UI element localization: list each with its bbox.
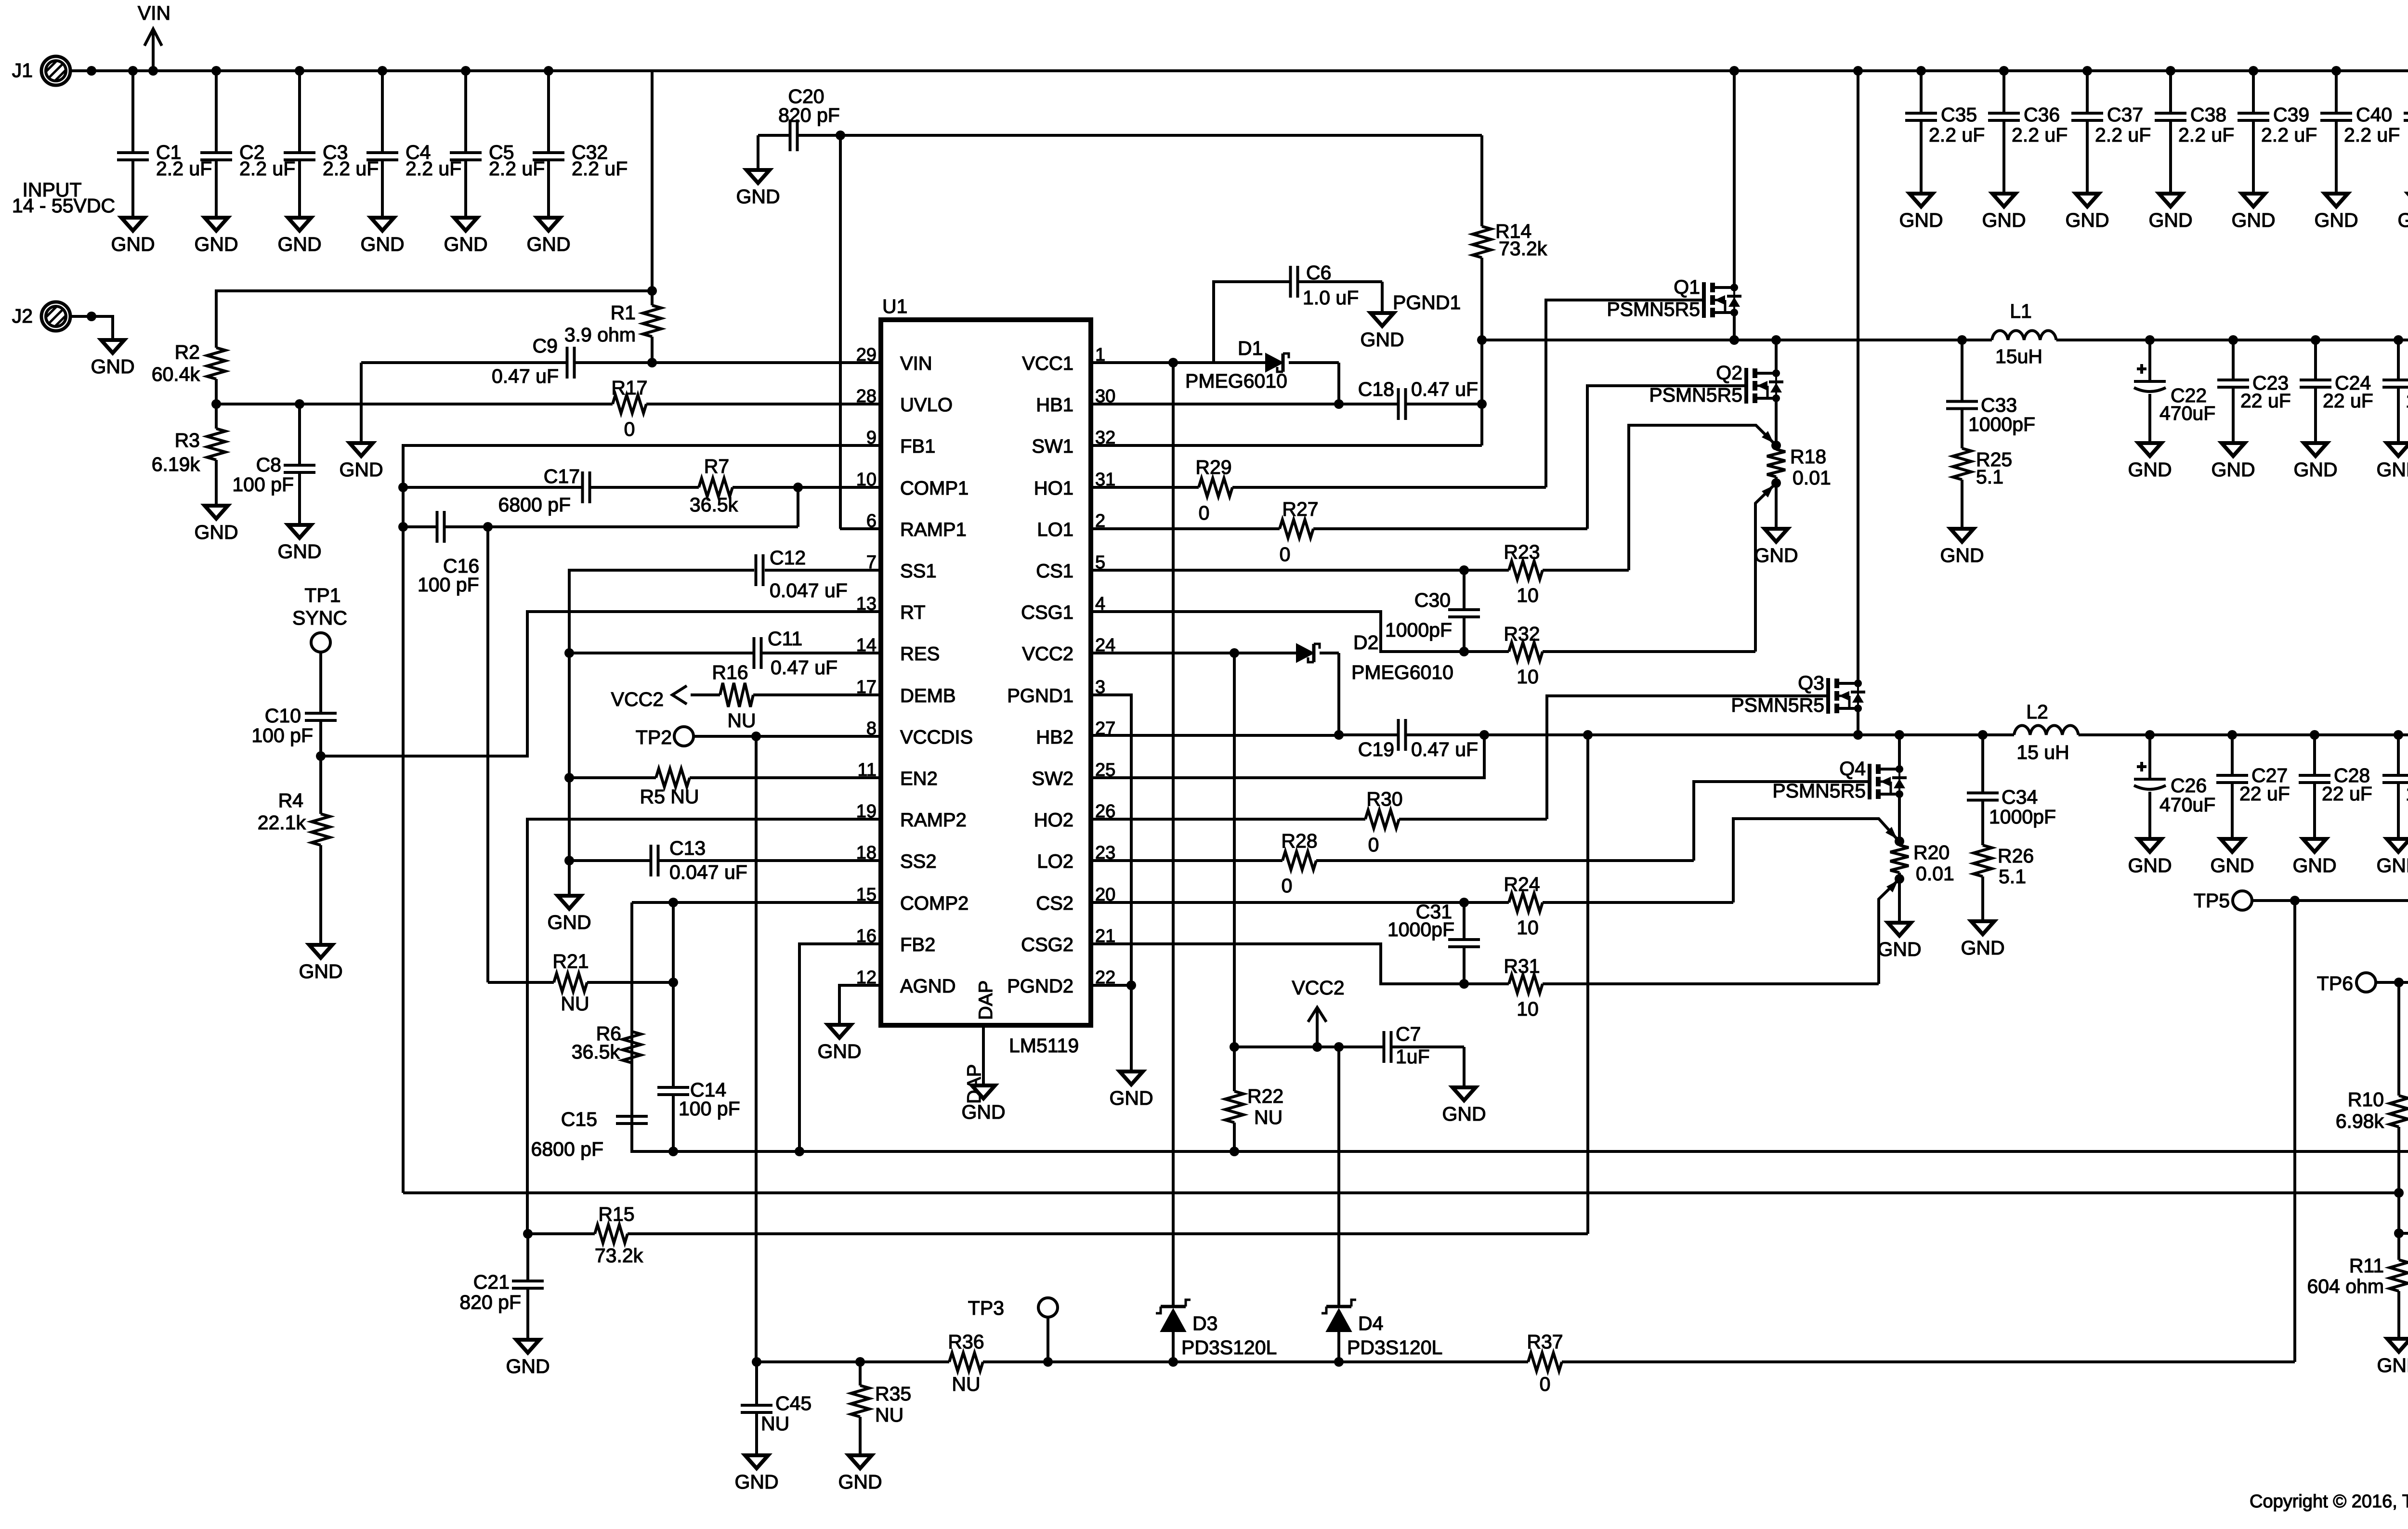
svg-text:1.0 uF: 1.0 uF [2406, 783, 2408, 805]
svg-text:D2: D2 [1353, 631, 1378, 653]
wire AGND row [839, 985, 881, 1025]
svg-text:GND: GND [1754, 544, 1798, 566]
svg-text:R16: R16 [712, 661, 748, 683]
capacitor C26 polarized [2134, 735, 2215, 839]
svg-text:3.9 ohm: 3.9 ohm [564, 324, 636, 346]
junction J2 stub [87, 312, 96, 321]
svg-text:Q3: Q3 [1798, 672, 1824, 694]
resistor R27 [1280, 498, 1319, 565]
wire D4 column [1337, 1047, 1340, 1307]
capacitor C31 [1387, 901, 1480, 984]
svg-text:0.047 uF: 0.047 uF [669, 861, 747, 883]
capacitor C21 [459, 1234, 544, 1340]
junction rail TP3 [1043, 1357, 1053, 1367]
svg-text:GND: GND [817, 1040, 861, 1062]
svg-text:470uF: 470uF [2159, 794, 2215, 816]
svg-text:RES: RES [900, 643, 940, 665]
junction C16 left [398, 522, 408, 532]
ground C7 [1442, 1087, 1486, 1125]
junction D4 top [1334, 1042, 1344, 1052]
wire CS2 row [1091, 901, 1733, 904]
svg-text:AGND: AGND [900, 976, 956, 997]
svg-text:C40: C40 [2356, 104, 2392, 126]
wire Q3 drain feed [1857, 71, 1859, 683]
svg-text:PGND1: PGND1 [1007, 685, 1073, 706]
svg-text:R4: R4 [278, 789, 303, 811]
wire HB2 row [1091, 735, 1399, 735]
svg-text:820 pF: 820 pF [778, 104, 840, 126]
transistor Q3 PSMN5R5 [1731, 672, 1865, 735]
svg-text:2.2 uF: 2.2 uF [572, 157, 628, 180]
capacitor C45 [741, 1362, 811, 1455]
svg-text:SYNC: SYNC [292, 607, 347, 629]
svg-text:TP3: TP3 [968, 1297, 1004, 1319]
junction FB2 R22 [1230, 1147, 1239, 1156]
svg-text:GND: GND [1360, 328, 1404, 351]
ground R3 [194, 506, 238, 543]
svg-text:0.47 uF: 0.47 uF [1411, 378, 1478, 400]
svg-text:D4: D4 [1358, 1312, 1383, 1334]
wire C9 gnd branch [360, 363, 363, 443]
resistor R6 [572, 1022, 641, 1063]
junction UVLO node [211, 399, 221, 409]
svg-text:R37: R37 [1527, 1331, 1563, 1353]
wire rail riser [2293, 901, 2296, 1362]
svg-text:GND: GND [1442, 1103, 1486, 1125]
svg-text:L1: L1 [2010, 300, 2032, 322]
svg-text:R2: R2 [175, 341, 200, 363]
svg-text:NU: NU [1254, 1106, 1283, 1128]
svg-text:29: 29 [856, 345, 877, 365]
svg-text:GND: GND [194, 233, 238, 255]
ground R11 [2377, 1339, 2408, 1376]
wire bottom rail [757, 1360, 2295, 1363]
svg-text:C21: C21 [473, 1271, 510, 1293]
svg-text:0.47 uF: 0.47 uF [492, 365, 559, 387]
wire VIN bus [56, 69, 2408, 72]
ground C37 [2065, 194, 2109, 231]
svg-text:R18: R18 [1790, 445, 1826, 468]
svg-text:R35: R35 [875, 1383, 911, 1405]
svg-text:CSG2: CSG2 [1021, 934, 1073, 955]
svg-text:PSMN5R5: PSMN5R5 [1772, 780, 1866, 802]
svg-text:13: 13 [856, 594, 877, 614]
inductor L1 15uH [1992, 300, 2056, 367]
junction bus C37 [2082, 66, 2092, 76]
node VCC2 flag up [1292, 977, 1344, 1047]
svg-text:18: 18 [856, 843, 877, 863]
node VIN flag [138, 2, 170, 71]
wire RAMP1 vertical [839, 135, 842, 529]
svg-text:TP5: TP5 [2194, 889, 2230, 912]
svg-text:GND: GND [91, 355, 134, 378]
svg-text:COMP1: COMP1 [900, 478, 968, 499]
svg-text:GND: GND [1961, 937, 2004, 959]
svg-text:9: 9 [866, 428, 877, 448]
svg-text:0: 0 [1368, 834, 1379, 856]
svg-text:1000pF: 1000pF [1968, 413, 2035, 435]
svg-text:100 pF: 100 pF [679, 1098, 740, 1120]
svg-text:GND: GND [2210, 854, 2254, 876]
svg-text:19: 19 [856, 801, 877, 822]
svg-text:R5 NU: R5 NU [640, 785, 699, 808]
svg-text:C36: C36 [2024, 104, 2060, 126]
svg-text:22 uF: 22 uF [2322, 783, 2372, 805]
junction R15 node [1583, 730, 1593, 740]
wire Q3 gate route [1547, 696, 1828, 819]
diode D2 PMEG6010 [1296, 631, 1453, 683]
resistor R20 [1890, 841, 1954, 885]
junction J1 stub [87, 66, 96, 76]
wire TP3 stem [1047, 1317, 1049, 1362]
wire SW2 rail [1484, 733, 2014, 736]
svg-text:C30: C30 [1414, 589, 1451, 611]
wire RAMP2 row [527, 819, 881, 1234]
svg-text:C18: C18 [1358, 378, 1394, 400]
svg-text:VIN: VIN [138, 2, 170, 24]
junction VIN row R1 [647, 358, 657, 367]
inductor L2 15 uH [2014, 701, 2079, 763]
capacitor C9 [492, 335, 575, 387]
svg-text:GND: GND [506, 1355, 550, 1377]
wire VCCDIS drop [755, 736, 758, 1362]
svg-text:17: 17 [856, 677, 877, 697]
svg-text:C37: C37 [2107, 104, 2143, 126]
node PGND1 flag [1393, 291, 1461, 314]
svg-text:GND: GND [1940, 544, 1984, 566]
ground C2 [194, 218, 238, 255]
svg-text:100 pF: 100 pF [251, 724, 313, 746]
wire R1 column [651, 71, 654, 291]
junction bus C5 [461, 66, 471, 76]
junction C30 top [1459, 565, 1469, 575]
svg-text:6800 pF: 6800 pF [531, 1138, 603, 1160]
wire FB2 line [632, 902, 2408, 1151]
svg-text:C35: C35 [1941, 104, 1977, 126]
label copyright [2250, 1491, 2408, 1512]
wire VIN row [361, 361, 881, 364]
svg-text:470uF: 470uF [2159, 402, 2215, 424]
svg-text:C19: C19 [1358, 738, 1394, 760]
svg-text:GND: GND [194, 521, 238, 543]
ground C20 [736, 170, 780, 208]
wire SW node [1482, 339, 1992, 341]
wire SS2 row [569, 859, 881, 862]
resistor R37 [1527, 1331, 1563, 1395]
svg-text:60.4k: 60.4k [152, 363, 200, 385]
svg-text:0.01: 0.01 [1916, 863, 1954, 885]
capacitor C39 [2238, 71, 2317, 194]
capacitor C11 [754, 627, 838, 679]
wire CSG1 row2 [1464, 650, 1755, 653]
capacitor C4 [366, 71, 461, 218]
svg-text:GND: GND [111, 233, 155, 255]
svg-text:DEMB: DEMB [900, 685, 956, 706]
capacitor C17 [498, 465, 590, 516]
wire D2 to HB2 [1337, 653, 1340, 735]
wire LO1 row [1091, 527, 1587, 530]
wire PGND drop [1130, 985, 1133, 1072]
svg-text:NU: NU [561, 993, 589, 1015]
svg-text:Q4: Q4 [1839, 758, 1866, 780]
svg-text:GND: GND [1982, 209, 2026, 231]
junction bus Q3 [1853, 66, 1863, 76]
junction bus C32 [544, 66, 553, 76]
wire HO1 row [1091, 486, 1546, 489]
diode D3 PD3S120L [1156, 1300, 1277, 1362]
svg-text:RAMP1: RAMP1 [900, 519, 967, 540]
svg-text:NU: NU [875, 1404, 903, 1426]
junction Q1 source [1729, 335, 1739, 345]
ground R4 [299, 945, 342, 982]
svg-text:C6: C6 [1306, 261, 1331, 284]
svg-text:R26: R26 [1998, 845, 2034, 867]
ground C35 [1899, 194, 1943, 231]
resistor R2 [152, 341, 225, 404]
junction C34 top [1978, 730, 1988, 740]
junction C30 bottom [1459, 647, 1469, 656]
svg-text:1uF: 1uF [1396, 1045, 1430, 1068]
wire VCC1 row [1091, 361, 1339, 364]
junction TP2 node [751, 732, 761, 741]
svg-text:GND: GND [2293, 458, 2337, 481]
wire COMP1 row [403, 486, 881, 489]
capacitor C29 [2382, 735, 2408, 839]
capacitor C12 [756, 547, 848, 601]
ground AGND [817, 1025, 861, 1062]
junction bus C38 [2166, 66, 2175, 76]
junction RAMP2 C21 [523, 1229, 533, 1239]
svg-text:0.01: 0.01 [1793, 467, 1831, 489]
svg-text:16: 16 [856, 926, 877, 946]
svg-text:PD3S120L: PD3S120L [1347, 1336, 1442, 1359]
resistor R26 [1974, 845, 2034, 921]
svg-text:VCC2: VCC2 [611, 688, 664, 710]
svg-text:C11: C11 [768, 627, 802, 650]
svg-text:GND: GND [2231, 209, 2275, 231]
terminal J1 [12, 56, 70, 85]
ground C1 [111, 218, 155, 255]
svg-text:0.047 uF: 0.047 uF [770, 579, 848, 601]
resistor R11 604 [2307, 1233, 2408, 1339]
svg-text:C7: C7 [1396, 1023, 1421, 1045]
svg-text:GND: GND [2376, 854, 2408, 876]
junction Q2 drain [1771, 335, 1781, 345]
svg-text:L2: L2 [2026, 701, 2048, 723]
wire Q1 gate route [1546, 300, 1704, 487]
svg-text:D1: D1 [1238, 337, 1263, 359]
svg-text:CSG1: CSG1 [1021, 602, 1073, 623]
junction OUT2 C29 [2394, 730, 2403, 740]
svg-text:C34: C34 [2002, 786, 2038, 808]
wire PGND2 stub [1091, 984, 1131, 987]
junction bus C4 [378, 66, 387, 76]
svg-text:6: 6 [866, 511, 877, 531]
wire HB1 row [1091, 403, 1399, 405]
svg-text:VCC2: VCC2 [1292, 977, 1344, 999]
svg-text:GND: GND [961, 1101, 1005, 1123]
svg-text:GND: GND [2292, 854, 2336, 876]
junction bus C1 [128, 66, 138, 76]
capacitor C14 [657, 902, 740, 1151]
resistor R21 [488, 527, 673, 1015]
svg-text:PD3S120L: PD3S120L [1181, 1336, 1277, 1359]
svg-text:10: 10 [1517, 916, 1539, 939]
resistor R32 [1504, 623, 1543, 688]
wire OUT1 rail [2056, 339, 2408, 341]
svg-text:28: 28 [856, 386, 877, 406]
svg-text:R30: R30 [1366, 788, 1402, 810]
svg-text:R29: R29 [1195, 456, 1231, 478]
wire RES row [569, 652, 881, 654]
svg-text:36.5k: 36.5k [572, 1041, 620, 1063]
ground C38 [2148, 194, 2192, 231]
wire CS1 kelvin [1629, 425, 1773, 570]
junction rail D3 [1168, 1357, 1178, 1367]
node VCC2 flag left [611, 686, 687, 710]
svg-text:GND: GND [444, 233, 487, 255]
capacitor C13 [651, 837, 747, 883]
svg-text:5.1: 5.1 [1976, 466, 2003, 488]
svg-text:GND: GND [2397, 209, 2408, 231]
wire FB1 line [403, 1191, 2399, 1194]
wire R10 to R11 [2397, 1193, 2400, 1233]
junction SW2 C19 [1479, 730, 1489, 740]
wire D3 column [1172, 363, 1175, 1307]
svg-text:15uH: 15uH [1995, 345, 2042, 367]
resistor R10 [2336, 982, 2408, 1193]
junction R11 node [2394, 1228, 2404, 1238]
svg-text:GND: GND [360, 233, 404, 255]
svg-text:PGND2: PGND2 [1007, 976, 1073, 997]
ground C9 [339, 443, 383, 481]
wire Q2 gate route [1587, 386, 1746, 529]
capacitor C19 [1358, 719, 1478, 760]
ground C24 [2293, 443, 2337, 481]
svg-text:14: 14 [856, 635, 877, 655]
wire SW1 riser [1480, 340, 1483, 445]
node R18 top arrow [1762, 431, 1774, 443]
wire R2 link [216, 291, 652, 348]
wire COMP1 jog [797, 487, 799, 527]
svg-text:GND: GND [736, 185, 780, 208]
svg-text:HB2: HB2 [1036, 727, 1073, 748]
svg-text:U1: U1 [882, 295, 907, 317]
wire CSG1 row [1091, 612, 1464, 652]
pin DAP [964, 1025, 985, 1104]
wire CSG2 row2 [1464, 982, 1879, 985]
svg-text:C39: C39 [2273, 104, 2309, 126]
junction R20 bottom [1895, 874, 1904, 884]
ground PGND [1109, 1072, 1153, 1109]
svg-text:PMEG6010: PMEG6010 [1351, 661, 1453, 683]
capacitor C25 [2382, 340, 2408, 443]
junction C14 top [668, 898, 678, 907]
wire RT row [321, 612, 881, 756]
junction EN2 node [564, 773, 574, 783]
junction C20 out [836, 131, 845, 140]
junction SW1 C18 [1477, 399, 1487, 409]
capacitor C1 [117, 71, 212, 218]
resistor R36 [948, 1331, 984, 1395]
svg-text:GND: GND [2376, 458, 2408, 481]
svg-text:GND: GND [2314, 209, 2358, 231]
resistor R28 [1281, 830, 1317, 897]
capacitor C40 [2320, 71, 2400, 194]
ground C3 [277, 218, 321, 255]
resistor R24 [1504, 873, 1543, 939]
wire CSG1 kelvin [1755, 486, 1773, 652]
junction rail R35 [855, 1357, 865, 1367]
wire R18 gnd [1775, 483, 1778, 529]
junction R21 right [668, 978, 678, 987]
wire COMP2 row [632, 901, 881, 904]
resistor R16 [712, 661, 756, 732]
svg-text:C12: C12 [770, 547, 806, 569]
svg-text:73.2k: 73.2k [595, 1244, 643, 1267]
ground C21 [506, 1340, 550, 1377]
junction HB2 node [1334, 730, 1344, 740]
svg-text:R10: R10 [2348, 1088, 2384, 1111]
resistor R3 [152, 404, 225, 506]
capacitor C46 [2399, 1233, 2408, 1339]
svg-text:R36: R36 [948, 1331, 984, 1353]
svg-text:R20: R20 [1913, 841, 1950, 863]
ground C4 [360, 218, 404, 255]
resistor R25 [1953, 448, 2012, 529]
ground C40 [2314, 194, 2358, 231]
junction HB1 node [1334, 399, 1344, 409]
capacitor C20 [758, 85, 840, 151]
ground C5 [444, 218, 487, 255]
ground C41 [2397, 194, 2408, 231]
ground R26 [1961, 921, 2004, 959]
svg-text:PSMN5R5: PSMN5R5 [1607, 298, 1700, 320]
junction C8 top [295, 399, 304, 409]
junction VCC1 node [1168, 358, 1178, 367]
ground R35 [838, 1455, 882, 1493]
svg-text:R31: R31 [1504, 955, 1540, 977]
svg-text:CS2: CS2 [1036, 893, 1073, 914]
junction C31 bottom [1459, 979, 1469, 989]
junction C13 left [564, 856, 574, 865]
junction Q3 source [1853, 730, 1863, 740]
junction R10 FB1 [2394, 1188, 2404, 1198]
junction OUT1 C22 [2145, 335, 2155, 345]
wire R15 riser [1586, 735, 1589, 1234]
junction R18 bottom [1771, 478, 1781, 488]
ground agnd column [547, 896, 591, 933]
junction R1 top link [647, 286, 657, 296]
capacitor C3 [284, 71, 379, 218]
svg-text:GND: GND [2065, 209, 2109, 231]
wire SS1 row [569, 570, 754, 896]
svg-text:GND: GND [734, 1471, 778, 1493]
svg-text:PSMN5R5: PSMN5R5 [1731, 694, 1824, 716]
capacitor C37 [2071, 71, 2151, 194]
svg-text:0: 0 [1280, 543, 1291, 565]
ground C22 [2128, 443, 2172, 481]
svg-text:FB2: FB2 [900, 934, 935, 955]
resistor R4 [258, 756, 330, 945]
svg-text:PGND1: PGND1 [1393, 291, 1461, 314]
junction R20 top [1895, 836, 1904, 846]
junction OUT1 C23 [2228, 335, 2238, 345]
svg-text:R7: R7 [704, 455, 729, 477]
svg-text:VCC2: VCC2 [1022, 643, 1073, 665]
svg-text:0: 0 [1282, 875, 1293, 897]
svg-text:1000pF: 1000pF [1385, 619, 1452, 641]
